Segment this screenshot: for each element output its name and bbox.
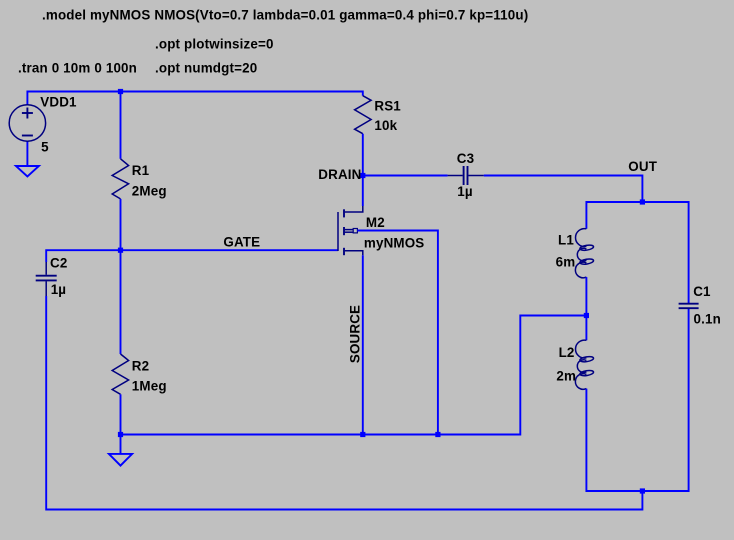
svg-text:GATE: GATE [223, 234, 260, 249]
inductor L2 [575, 340, 594, 389]
svg-text:DRAIN: DRAIN [318, 167, 361, 182]
node junction top rail [118, 89, 123, 94]
svg-text:C1: C1 [693, 284, 711, 299]
capacitor C2 [36, 262, 57, 296]
wire VDD1 to ground [26, 141, 28, 166]
node junction DRAIN [360, 173, 365, 178]
node junction source-bus [360, 432, 365, 437]
wire VDD top rail [27, 92, 362, 106]
wire C3 to OUT corner [484, 176, 643, 203]
wire GATE [121, 249, 339, 251]
svg-text:1µ: 1µ [51, 282, 66, 297]
svg-text:2m: 2m [556, 369, 576, 384]
wire M2 source to bus [362, 255, 364, 434]
svg-text:R2: R2 [132, 359, 149, 374]
ground under VDD1 [16, 166, 39, 177]
svg-text:0.1n: 0.1n [694, 312, 721, 327]
svg-text:.opt plotwinsize=0: .opt plotwinsize=0 [155, 37, 274, 52]
ground under R2 [109, 454, 132, 466]
svg-text:OUT: OUT [628, 159, 657, 174]
svg-text:10k: 10k [374, 118, 397, 133]
inductor L1 [575, 229, 594, 278]
wire R2 top [120, 250, 122, 354]
voltage source VDD1 [9, 105, 45, 141]
svg-text:M2: M2 [366, 215, 385, 230]
svg-text:R1: R1 [132, 163, 150, 178]
svg-text:SOURCE: SOURCE [348, 305, 363, 363]
svg-text:.tran 0 10m 0 100n: .tran 0 10m 0 100n [18, 61, 137, 76]
svg-text:1µ: 1µ [457, 184, 472, 199]
svg-text:L2: L2 [559, 345, 575, 360]
wire tank top rail [586, 202, 688, 303]
wire M2 bulk to bus [357, 231, 438, 435]
svg-text:myNMOS: myNMOS [364, 235, 425, 250]
transistor M2 [338, 206, 363, 255]
svg-text:VDD1: VDD1 [40, 95, 77, 110]
node junction gate [118, 248, 123, 253]
wire R1 top [120, 92, 122, 159]
svg-text:RS1: RS1 [374, 99, 401, 114]
wire R2 bottom [120, 394, 122, 434]
wire ground stub [120, 435, 122, 454]
node junction bulk-bus [435, 432, 440, 437]
node junction bottom tap [640, 488, 645, 493]
svg-text:C2: C2 [50, 256, 67, 271]
svg-text:1Meg: 1Meg [132, 378, 167, 393]
capacitor C3 [448, 166, 484, 185]
resistor R2 [112, 354, 128, 394]
svg-text:.opt numdgt=20: .opt numdgt=20 [155, 61, 257, 76]
wire L2 bottom loop [586, 309, 688, 492]
resistor R1 [112, 159, 128, 199]
svg-text:5: 5 [41, 140, 49, 155]
svg-text:C3: C3 [457, 151, 474, 166]
svg-text:L1: L1 [558, 232, 574, 247]
svg-text:6m: 6m [556, 255, 576, 270]
wire drain to C3 [363, 175, 448, 177]
wire RS1 bottom to drain [362, 134, 364, 206]
wire R1 bottom to gate node [120, 199, 122, 250]
node junction bottom left [118, 432, 123, 437]
node junction OUT [640, 199, 645, 204]
wire C2 bottom long run [46, 296, 642, 510]
wire L1 to L2 [585, 277, 587, 340]
capacitor C1 [679, 304, 699, 309]
wire bottom bus [121, 316, 587, 435]
resistor RS1 [355, 96, 372, 134]
svg-text:.model myNMOS NMOS(Vto=0.7 lam: .model myNMOS NMOS(Vto=0.7 lambda=0.01 g… [42, 8, 528, 23]
wire gate node to C2 [46, 250, 120, 262]
node junction tank mid [584, 313, 589, 318]
svg-text:2Meg: 2Meg [132, 183, 167, 198]
